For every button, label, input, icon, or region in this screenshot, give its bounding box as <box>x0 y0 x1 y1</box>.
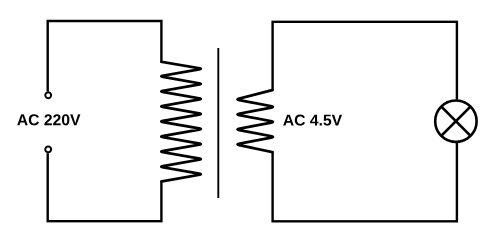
terminal: AC source bottom <box>45 147 51 153</box>
label "AC 220V" <box>17 114 80 125</box>
wire: secondary top lead up, across top, down to lamp top <box>273 22 457 100</box>
wire: bottom terminal down, across bottom, up to primary bottom lead <box>48 153 162 221</box>
lamp: envelope circle <box>435 101 476 142</box>
inductor: transformer secondary coil L2 (4.5V winding) <box>238 90 273 152</box>
lamp: X diagonal 1 <box>441 107 470 136</box>
wire: AC source top terminal up, across top, down to primary top lead <box>48 21 162 91</box>
inductor: transformer primary coil L1 (220V winding) <box>161 62 201 182</box>
terminal: AC source top <box>45 92 51 98</box>
wire: lamp bottom down, across bottom, up to secondary bottom lead <box>273 143 457 221</box>
transformer core <box>217 48 219 198</box>
label "AC 4.5V" <box>283 115 342 126</box>
lamp: X diagonal 2 <box>441 107 470 136</box>
